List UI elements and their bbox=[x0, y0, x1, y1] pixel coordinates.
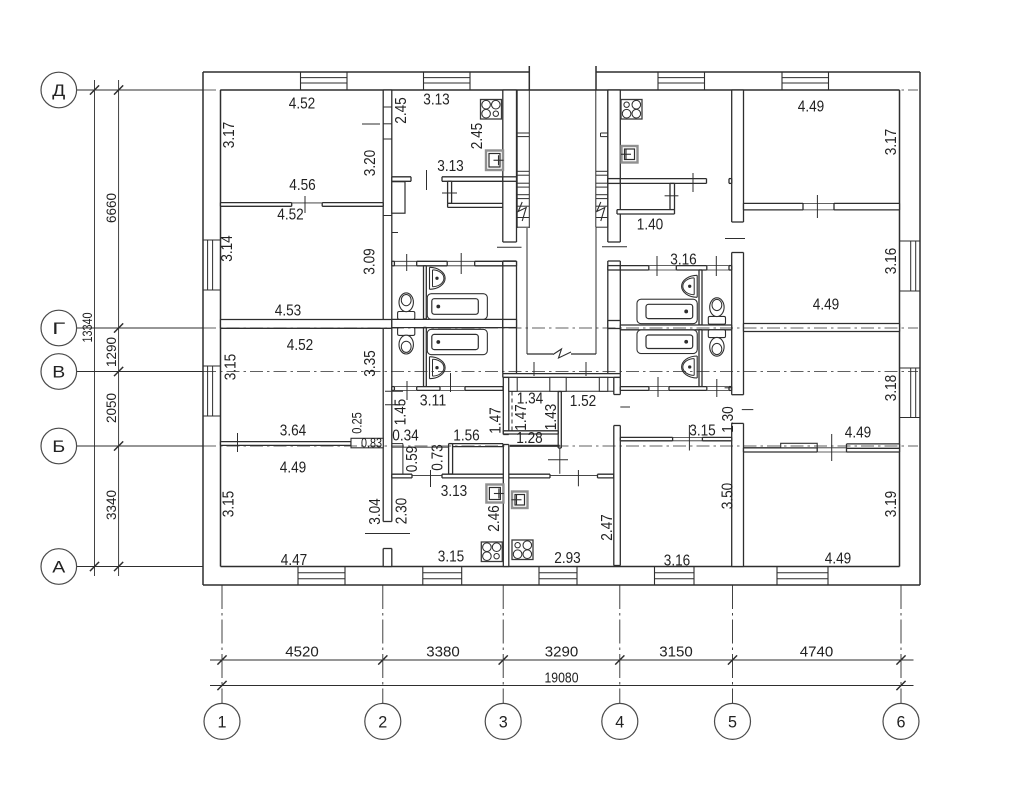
svg-text:3.16: 3.16 bbox=[670, 252, 697, 269]
svg-text:3.11: 3.11 bbox=[420, 393, 447, 410]
svg-text:3.17: 3.17 bbox=[883, 129, 900, 156]
svg-text:3.20: 3.20 bbox=[362, 150, 379, 177]
svg-text:А: А bbox=[52, 558, 65, 576]
svg-text:0.25: 0.25 bbox=[348, 412, 364, 434]
svg-text:3.15: 3.15 bbox=[689, 423, 716, 440]
svg-text:4.49: 4.49 bbox=[845, 425, 872, 442]
svg-text:1.47: 1.47 bbox=[488, 407, 505, 434]
svg-text:4.49: 4.49 bbox=[813, 297, 840, 314]
svg-text:3.13: 3.13 bbox=[441, 483, 468, 500]
svg-text:3340: 3340 bbox=[104, 490, 119, 520]
svg-text:4.52: 4.52 bbox=[289, 96, 316, 113]
svg-text:3.09: 3.09 bbox=[362, 248, 379, 275]
svg-text:3.04: 3.04 bbox=[367, 498, 384, 525]
svg-text:2.30: 2.30 bbox=[394, 498, 411, 525]
svg-text:1.47: 1.47 bbox=[513, 404, 530, 431]
svg-text:2.93: 2.93 bbox=[554, 550, 581, 567]
svg-text:4.56: 4.56 bbox=[289, 177, 316, 194]
svg-text:3.16: 3.16 bbox=[664, 553, 691, 570]
svg-text:4.49: 4.49 bbox=[825, 551, 852, 568]
svg-text:0.73: 0.73 bbox=[430, 444, 447, 471]
svg-text:13340: 13340 bbox=[80, 313, 95, 343]
svg-text:4.49: 4.49 bbox=[280, 460, 307, 477]
svg-text:1: 1 bbox=[218, 713, 227, 732]
svg-text:3380: 3380 bbox=[426, 643, 460, 660]
svg-text:Г: Г bbox=[52, 320, 65, 338]
svg-text:3.13: 3.13 bbox=[437, 158, 464, 175]
svg-text:4.47: 4.47 bbox=[281, 552, 308, 569]
svg-text:В: В bbox=[52, 363, 65, 381]
svg-text:3.15: 3.15 bbox=[223, 354, 240, 381]
svg-text:1290: 1290 bbox=[104, 337, 119, 367]
svg-text:3.64: 3.64 bbox=[280, 423, 307, 440]
svg-text:3290: 3290 bbox=[545, 643, 579, 660]
svg-text:2.46: 2.46 bbox=[486, 505, 503, 532]
svg-text:4.53: 4.53 bbox=[275, 303, 302, 320]
svg-text:19080: 19080 bbox=[545, 670, 579, 687]
svg-text:1.40: 1.40 bbox=[637, 217, 664, 234]
svg-text:0.34: 0.34 bbox=[392, 428, 419, 445]
svg-text:3150: 3150 bbox=[659, 643, 693, 660]
svg-text:4.52: 4.52 bbox=[287, 337, 314, 354]
svg-text:3.16: 3.16 bbox=[883, 248, 900, 275]
svg-text:1.45: 1.45 bbox=[393, 399, 410, 426]
svg-text:6: 6 bbox=[897, 713, 906, 732]
svg-text:3.17: 3.17 bbox=[221, 122, 238, 149]
svg-text:6660: 6660 bbox=[104, 193, 119, 223]
svg-text:4.49: 4.49 bbox=[798, 99, 825, 116]
svg-text:4.52: 4.52 bbox=[277, 207, 304, 224]
svg-text:3.19: 3.19 bbox=[883, 491, 900, 518]
svg-text:1.52: 1.52 bbox=[570, 393, 597, 410]
svg-text:1.56: 1.56 bbox=[453, 428, 480, 445]
svg-text:3.13: 3.13 bbox=[423, 92, 450, 109]
svg-text:1.30: 1.30 bbox=[720, 406, 737, 433]
svg-text:3.15: 3.15 bbox=[438, 549, 465, 566]
svg-text:Б: Б bbox=[52, 438, 65, 456]
svg-text:3.18: 3.18 bbox=[883, 375, 900, 402]
svg-text:2.45: 2.45 bbox=[393, 97, 410, 124]
svg-text:2050: 2050 bbox=[104, 393, 119, 423]
svg-text:1.28: 1.28 bbox=[516, 430, 543, 447]
svg-text:4: 4 bbox=[615, 713, 624, 732]
svg-text:3.35: 3.35 bbox=[362, 350, 379, 377]
svg-text:3.14: 3.14 bbox=[219, 235, 236, 262]
svg-text:3.15: 3.15 bbox=[221, 491, 238, 518]
svg-text:2.47: 2.47 bbox=[599, 514, 616, 541]
svg-text:2.45: 2.45 bbox=[469, 123, 486, 150]
svg-text:2: 2 bbox=[378, 713, 387, 732]
svg-text:3.50: 3.50 bbox=[720, 483, 737, 510]
svg-text:4520: 4520 bbox=[285, 643, 319, 660]
svg-text:0.59: 0.59 bbox=[404, 446, 421, 473]
svg-text:Д: Д bbox=[52, 82, 65, 100]
svg-text:1.43: 1.43 bbox=[543, 404, 560, 431]
svg-text:3: 3 bbox=[499, 713, 508, 732]
svg-text:5: 5 bbox=[728, 713, 737, 732]
svg-text:0.83: 0.83 bbox=[361, 435, 382, 450]
svg-text:4740: 4740 bbox=[800, 643, 834, 660]
